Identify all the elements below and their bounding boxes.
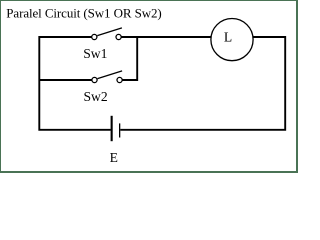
svg-text:L: L [224, 30, 232, 45]
switch Sw2 lever [98, 71, 123, 79]
switch Sw2 left terminal [92, 77, 97, 82]
switch Sw1 right terminal [116, 34, 121, 39]
svg-text:Sw2: Sw2 [84, 89, 108, 104]
lamp L circle [211, 18, 253, 60]
wire: Sw2 branch right segment and junction vertical up to top wire [120, 37, 138, 81]
battery E long plate [111, 116, 113, 141]
wire: top-left loop (Sw1 left terminal, left along top, down left vertical, bottom wire to battery) [39, 37, 110, 130]
wire: top wire from Sw1 right terminal, right vertical down, bottom wire back to battery [119, 37, 286, 130]
switch Sw1 left terminal [92, 34, 97, 39]
switch Sw2 right terminal [117, 77, 122, 82]
battery E short plate [119, 123, 120, 137]
svg-text:Paralel Circuit (Sw1 OR Sw2): Paralel Circuit (Sw1 OR Sw2) [6, 5, 161, 20]
svg-text:E: E [110, 150, 118, 165]
switch Sw1 lever [97, 28, 122, 36]
picture frame border [0, 0, 298, 173]
wire: Sw2 branch left segment [39, 79, 94, 81]
svg-text:Sw1: Sw1 [83, 46, 107, 61]
